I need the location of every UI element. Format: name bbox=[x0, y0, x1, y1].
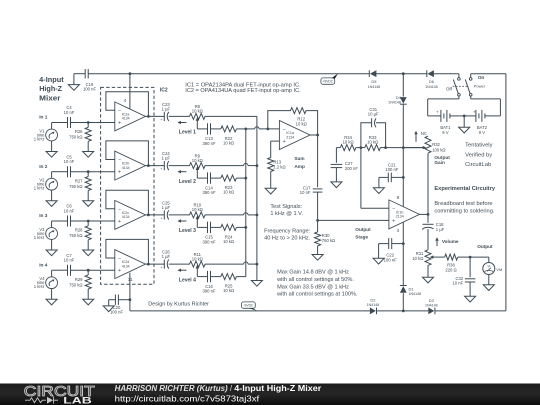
wire IC1b pin 8 bbox=[397, 105, 404, 207]
svg-text:+: + bbox=[118, 268, 121, 274]
ground for R28 bbox=[83, 250, 94, 256]
svg-text:9 V: 9 V bbox=[442, 130, 448, 135]
wire switch poleA to BAT1 bbox=[428, 96, 459, 116]
svg-text:Gain: Gain bbox=[434, 160, 445, 165]
diode D3 bbox=[425, 298, 438, 314]
resistor R22 bbox=[221, 126, 237, 146]
tentatively verified note bbox=[465, 143, 492, 168]
svg-text:10 nF: 10 nF bbox=[452, 281, 463, 286]
wire wiper branch 4 bbox=[197, 276, 246, 278]
svg-text:Breadboard test before: Breadboard test before bbox=[434, 201, 492, 207]
capacitor C27 bbox=[331, 148, 359, 182]
diode D4 bbox=[388, 74, 406, 105]
svg-text:Amp: Amp bbox=[294, 164, 305, 169]
svg-text:Volume: Volume bbox=[442, 239, 459, 244]
op-amp IC2b bbox=[115, 151, 146, 180]
node -9VDC tag bbox=[242, 302, 258, 311]
ground for R13 bbox=[265, 188, 276, 194]
capacitor C15 bbox=[202, 222, 215, 245]
capacitor C7 bbox=[64, 253, 75, 276]
svg-text:R26: R26 bbox=[75, 129, 83, 134]
svg-text:4: 4 bbox=[397, 228, 400, 233]
svg-text:In 4: In 4 bbox=[39, 262, 48, 268]
svg-text:10 kΩ: 10 kΩ bbox=[412, 256, 423, 261]
svg-text:Level 3: Level 3 bbox=[179, 228, 196, 234]
svg-text:Design by Kurtus Richter: Design by Kurtus Richter bbox=[148, 301, 209, 307]
svg-text:Stage: Stage bbox=[355, 235, 368, 240]
wiper direction arrow R10 bbox=[177, 219, 186, 222]
svg-text:Sum: Sum bbox=[294, 156, 304, 161]
svg-text:1 kHz @ 1 V.: 1 kHz @ 1 V. bbox=[270, 211, 303, 217]
svg-text:10 kΩ: 10 kΩ bbox=[343, 140, 354, 145]
wire R32 to output node bbox=[427, 153, 429, 214]
wire switch to right edge bbox=[471, 74, 506, 311]
node Level 3 label bbox=[179, 228, 196, 234]
potentiometer R9 bbox=[190, 153, 206, 178]
resistor R34 bbox=[336, 135, 361, 151]
svg-text:100 nF: 100 nF bbox=[385, 167, 398, 172]
potentiometer R32 bbox=[403, 136, 445, 153]
svg-text:10 nF: 10 nF bbox=[64, 110, 75, 115]
node Output label bbox=[477, 244, 493, 249]
svg-text:4134: 4134 bbox=[122, 264, 130, 268]
voltage source V2 bbox=[34, 172, 58, 191]
ground for R29 bbox=[83, 299, 94, 305]
svg-text:10 kΩ: 10 kΩ bbox=[223, 239, 234, 244]
node Sum Amp label bbox=[294, 156, 305, 169]
resistor R28 bbox=[69, 221, 91, 250]
svg-text:−: − bbox=[392, 207, 395, 213]
svg-text:10 nF: 10 nF bbox=[64, 208, 75, 213]
battery BAT2 bbox=[464, 109, 500, 134]
node Level 2 label bbox=[179, 179, 196, 185]
junction dot C22 tap bbox=[402, 242, 405, 245]
junction dot busC row4 bbox=[256, 263, 259, 266]
svg-text:+: + bbox=[392, 218, 395, 224]
diode D6 bbox=[425, 70, 438, 89]
wire IC1b pin 4 bbox=[397, 222, 404, 285]
wire wiper branch 3 bbox=[197, 226, 246, 228]
potentiometer R10 bbox=[190, 203, 206, 228]
node Level 1 label bbox=[179, 130, 196, 136]
wire top rail bbox=[88, 73, 459, 75]
potentiometer R8 bbox=[190, 104, 206, 129]
svg-text:Output: Output bbox=[477, 244, 493, 249]
wire input row 3 bbox=[52, 220, 115, 222]
svg-text:D1: D1 bbox=[409, 286, 415, 291]
design credit bbox=[148, 301, 209, 307]
junction dot rail pin4 bbox=[129, 72, 132, 75]
svg-text:R28: R28 bbox=[75, 228, 83, 233]
resistor R29 bbox=[69, 270, 91, 299]
capacitor C4 bbox=[64, 105, 75, 128]
svg-text:390 nF: 390 nF bbox=[202, 289, 215, 294]
wire feedback IC2c bbox=[106, 190, 148, 215]
svg-text:10 kΩ: 10 kΩ bbox=[192, 207, 203, 212]
wire pot R8 to bus bbox=[205, 115, 257, 117]
ground for VM bbox=[483, 275, 494, 291]
junction dot input 4 bbox=[87, 269, 90, 272]
svg-text:−: − bbox=[118, 207, 121, 213]
svg-text:Max Gain 14.8 dBV @ 1 kHz: Max Gain 14.8 dBV @ 1 kHz bbox=[277, 270, 349, 276]
svg-text:10 nF: 10 nF bbox=[64, 258, 75, 263]
footer bar bbox=[0, 384, 540, 405]
ground for C20 bbox=[103, 300, 114, 312]
junction dot output IC2d bbox=[147, 263, 150, 266]
resistor R26 bbox=[69, 123, 91, 152]
svg-text:+: + bbox=[283, 139, 286, 145]
svg-text:4134: 4134 bbox=[122, 166, 130, 170]
junction dot input 3 bbox=[87, 220, 90, 223]
battery BAT1 bbox=[436, 109, 464, 134]
op-amp IC2c bbox=[115, 200, 146, 229]
ground for V2 bbox=[46, 190, 57, 207]
svg-text:−: − bbox=[118, 158, 121, 164]
svg-text:Experimental Circuitry: Experimental Circuitry bbox=[434, 186, 496, 192]
capacitor C21 bbox=[379, 162, 403, 182]
wire pot R11 to bus bbox=[205, 262, 257, 264]
svg-text:200 nF: 200 nF bbox=[345, 166, 358, 171]
junction dot output IC2a bbox=[147, 115, 150, 118]
ground for V3 bbox=[46, 239, 57, 256]
svg-text:Frequency Range:: Frequency Range: bbox=[264, 229, 310, 235]
experimental circuitry note bbox=[434, 186, 496, 215]
svg-text:+9VDC: +9VDC bbox=[322, 80, 333, 84]
capacitor C6 bbox=[64, 204, 75, 227]
junction dot input 2 bbox=[87, 170, 90, 173]
svg-text:committing to soldering.: committing to soldering. bbox=[434, 209, 494, 215]
svg-text:1 µF: 1 µF bbox=[162, 106, 171, 111]
R31 volume arrow bbox=[435, 237, 438, 246]
svg-text:390 nF: 390 nF bbox=[202, 141, 215, 146]
ground for C22 bbox=[373, 244, 384, 264]
svg-text:1 kHz: 1 kHz bbox=[34, 186, 45, 191]
svg-text:R27: R27 bbox=[75, 178, 83, 183]
junction dot output IC2c bbox=[147, 214, 150, 217]
resistor R13 bbox=[268, 141, 286, 188]
svg-text:In 1: In 1 bbox=[39, 115, 48, 121]
svg-text:750 kΩ: 750 kΩ bbox=[69, 135, 82, 140]
svg-text:1N4148: 1N4148 bbox=[388, 101, 401, 105]
svg-text:100 nF: 100 nF bbox=[83, 86, 96, 91]
svg-text:4134: 4134 bbox=[122, 215, 130, 219]
op-amp IC2d bbox=[115, 250, 146, 279]
capacitor C18 bbox=[422, 214, 445, 249]
svg-text:CircuitLab: CircuitLab bbox=[465, 162, 491, 168]
wire wiper branch 2 bbox=[197, 177, 246, 179]
capacitor C5 bbox=[64, 154, 75, 177]
wire IC1b minus to divider bbox=[361, 148, 389, 209]
svg-text:Off: Off bbox=[446, 87, 453, 92]
capacitor C22 bbox=[379, 238, 404, 263]
wire BAT2 to switch poleB bbox=[471, 96, 501, 116]
diode D2 bbox=[367, 297, 380, 314]
capacitor C20 bbox=[109, 295, 130, 315]
svg-text:D6: D6 bbox=[429, 79, 435, 84]
svg-text:100 nF: 100 nF bbox=[384, 258, 397, 263]
svg-text:2134: 2134 bbox=[286, 135, 294, 139]
capacitor C26 bbox=[160, 250, 170, 270]
switch coupling dashes bbox=[453, 85, 469, 87]
node Level 4 label bbox=[179, 277, 196, 283]
capacitor C25 bbox=[160, 200, 170, 220]
svg-text:D4: D4 bbox=[396, 95, 402, 100]
resistor R33 bbox=[361, 135, 386, 151]
wire input row 1 bbox=[52, 122, 115, 124]
wire sum node to IC1a bbox=[246, 127, 280, 129]
svg-text:1 kHz: 1 kHz bbox=[34, 235, 45, 240]
svg-text:1 kHz: 1 kHz bbox=[34, 284, 45, 289]
resistor R27 bbox=[69, 172, 91, 201]
svg-text:1N4148: 1N4148 bbox=[425, 304, 438, 308]
svg-text:-9VDC: -9VDC bbox=[243, 304, 254, 308]
wire feedback IC2b bbox=[106, 141, 148, 166]
diode D5 bbox=[368, 70, 381, 89]
svg-text:4-Input: 4-Input bbox=[39, 75, 64, 84]
svg-text:NC: NC bbox=[421, 131, 427, 136]
node Output Stage label bbox=[355, 227, 371, 239]
svg-text:40 Hz to > 20 kHz.: 40 Hz to > 20 kHz. bbox=[264, 236, 311, 242]
svg-text:Max Gain 33.5 dBV @ 1 kHz: Max Gain 33.5 dBV @ 1 kHz bbox=[277, 285, 349, 291]
svg-text:1 µF: 1 µF bbox=[436, 227, 445, 232]
node Output Gain label bbox=[434, 155, 450, 165]
junction dot divider mid bbox=[360, 146, 363, 149]
CircuitLab logo bbox=[24, 383, 95, 405]
IC note text bbox=[185, 83, 300, 95]
svg-text:100 kΩ: 100 kΩ bbox=[432, 147, 445, 152]
svg-text:In 2: In 2 bbox=[39, 164, 48, 170]
footer url text bbox=[115, 394, 260, 404]
junction dot busC row2 bbox=[256, 164, 259, 167]
wire output IC2b bbox=[145, 165, 189, 167]
svg-text:1 µF: 1 µF bbox=[162, 156, 171, 161]
svg-text:D3: D3 bbox=[429, 298, 435, 303]
node In 2 label bbox=[39, 164, 48, 170]
capacitor C17 bbox=[300, 186, 323, 221]
wire IC1b output bbox=[419, 213, 428, 215]
wiper direction arrow R8 bbox=[177, 121, 186, 124]
wire bus pot ground side bbox=[256, 116, 258, 280]
junction dot pin8 rail bbox=[402, 146, 405, 149]
wiper direction arrow R9 bbox=[177, 170, 186, 173]
ground for C32 bbox=[465, 296, 476, 302]
svg-text:10 kΩ: 10 kΩ bbox=[192, 256, 203, 261]
svg-text:10 kΩ: 10 kΩ bbox=[223, 190, 234, 195]
svg-text:10 kΩ: 10 kΩ bbox=[223, 141, 234, 146]
ground for R27 bbox=[83, 201, 94, 207]
junction dot input 1 bbox=[87, 121, 90, 124]
voltmeter VM bbox=[483, 263, 503, 275]
node +9VDC tag bbox=[321, 74, 338, 85]
wire to IC1b plus bbox=[318, 219, 389, 221]
diode D1 bbox=[400, 286, 421, 311]
svg-text:9 V: 9 V bbox=[479, 130, 485, 135]
svg-text:Mixer: Mixer bbox=[39, 93, 60, 102]
svg-text:IC2: IC2 bbox=[160, 88, 168, 94]
voltage source V1 bbox=[34, 123, 58, 142]
wire wiper branch 1 bbox=[197, 128, 246, 130]
wire bottom rail bbox=[130, 310, 506, 312]
svg-text:VM: VM bbox=[496, 267, 502, 272]
wire output IC2d bbox=[145, 263, 189, 265]
junction dot C17 R30 bbox=[316, 219, 319, 222]
switch SW1 pole B bbox=[465, 75, 485, 96]
ground for level pots bbox=[251, 281, 262, 287]
voltage source V3 bbox=[34, 221, 58, 240]
ground for V1 bbox=[46, 141, 57, 158]
svg-text:On: On bbox=[478, 75, 485, 81]
svg-text:with all control settings at 5: with all control settings at 50%. bbox=[276, 277, 354, 283]
svg-text:8: 8 bbox=[397, 195, 400, 200]
svg-text:In 3: In 3 bbox=[39, 213, 48, 219]
svg-text:+: + bbox=[436, 109, 439, 114]
wire divider to R32 bbox=[386, 147, 424, 149]
op-amp IC1b bbox=[389, 200, 420, 229]
capacitor C14 bbox=[202, 172, 215, 195]
node In 1 label bbox=[39, 115, 48, 121]
svg-text:10 nF: 10 nF bbox=[64, 159, 75, 164]
junction dot R33 right bbox=[384, 146, 387, 149]
svg-text:D5: D5 bbox=[371, 79, 377, 84]
wire IC2 pin 4 bbox=[124, 74, 130, 109]
ground for R26 bbox=[83, 152, 94, 158]
voltage source V4 bbox=[34, 270, 58, 289]
svg-text:10 kΩ: 10 kΩ bbox=[296, 122, 307, 127]
svg-text:Test Signals:: Test Signals: bbox=[270, 204, 302, 210]
wire output IC2c bbox=[145, 214, 189, 216]
capacitor C23 bbox=[160, 102, 170, 122]
svg-text:750 kΩ: 750 kΩ bbox=[69, 233, 82, 238]
svg-text:10 µF: 10 µF bbox=[368, 112, 379, 117]
svg-text:http://circuitlab.com/c7v5873t: http://circuitlab.com/c7v5873taj3xf bbox=[115, 394, 260, 404]
junction dot bus branch 3 bbox=[244, 226, 247, 229]
resistor R12 feedback bbox=[268, 108, 318, 135]
R32 NC terminal arrow bbox=[414, 131, 427, 142]
svg-text:Output: Output bbox=[355, 227, 371, 232]
svg-text:1N4148: 1N4148 bbox=[367, 303, 380, 307]
junction dot IC1a minus bbox=[266, 127, 269, 130]
op-amp IC2a bbox=[115, 102, 146, 131]
svg-text:+: + bbox=[118, 120, 121, 126]
junction dot bus branch 1 bbox=[244, 127, 247, 130]
potentiometer R11 bbox=[190, 252, 206, 277]
svg-text:V: V bbox=[487, 263, 490, 268]
svg-text:10 kΩ: 10 kΩ bbox=[223, 288, 234, 293]
svg-text:750 kΩ: 750 kΩ bbox=[69, 184, 82, 189]
svg-text:1N4148: 1N4148 bbox=[368, 85, 381, 89]
ground battery midpoint bbox=[459, 116, 470, 133]
ground for R30 bbox=[312, 255, 323, 261]
svg-text:220 Ω: 220 Ω bbox=[445, 268, 456, 273]
capacitor C13 bbox=[202, 123, 215, 146]
wire input row 4 bbox=[52, 269, 115, 271]
IC2 package dashed box bbox=[101, 87, 168, 284]
op-amp IC1a bbox=[279, 121, 310, 150]
ground for V4 bbox=[46, 288, 57, 305]
ground for C19 bbox=[68, 85, 79, 91]
svg-text:−: − bbox=[283, 127, 286, 133]
svg-text:1N4148: 1N4148 bbox=[409, 292, 422, 296]
wire pot R9 to bus bbox=[205, 163, 257, 165]
wire feedback IC2d bbox=[106, 239, 148, 264]
frequency range note bbox=[264, 229, 311, 242]
capacitor C32 bbox=[452, 257, 475, 296]
svg-text:750 kΩ: 750 kΩ bbox=[69, 282, 82, 287]
junction dot D1 rail bbox=[402, 310, 405, 313]
svg-text:LAB: LAB bbox=[63, 394, 92, 405]
svg-text:with all control settings at 1: with all control settings at 100%. bbox=[276, 291, 358, 297]
svg-text:11: 11 bbox=[128, 277, 133, 282]
svg-text:High-Z: High-Z bbox=[39, 84, 62, 93]
test signals note bbox=[270, 204, 303, 217]
wire pot R10 to bus bbox=[205, 213, 257, 215]
junction dot IC1b output bbox=[427, 213, 430, 216]
svg-text:10 nF: 10 nF bbox=[300, 190, 311, 195]
potentiometer R31 bbox=[412, 250, 434, 266]
svg-text:−: − bbox=[118, 109, 121, 115]
wiper direction arrow R11 bbox=[177, 269, 186, 272]
svg-text:R29: R29 bbox=[75, 277, 83, 282]
junction dot busC row3 bbox=[256, 214, 259, 217]
svg-text:1 kHz: 1 kHz bbox=[34, 136, 45, 141]
wire IC2 pin 11 bbox=[128, 273, 133, 311]
svg-text:D2: D2 bbox=[370, 297, 376, 302]
svg-text:Level 1: Level 1 bbox=[179, 130, 196, 136]
ground for C21 bbox=[373, 177, 384, 193]
junction dot output IC2b bbox=[147, 164, 150, 167]
title text bbox=[39, 75, 64, 103]
svg-text:2134: 2134 bbox=[396, 215, 404, 219]
svg-text:Verified by: Verified by bbox=[465, 152, 492, 158]
resistor R38 bbox=[433, 254, 470, 273]
junction dot output net bbox=[469, 256, 472, 259]
wire IC1a output bbox=[309, 135, 317, 187]
wire input row 2 bbox=[52, 171, 115, 173]
capacitor C16 bbox=[202, 271, 215, 294]
svg-text:1 µF: 1 µF bbox=[162, 205, 171, 210]
wire bus wiper sum bbox=[245, 129, 247, 277]
svg-text:760 kΩ: 760 kΩ bbox=[322, 238, 335, 243]
svg-text:4134: 4134 bbox=[122, 117, 130, 121]
svg-text:Level 4: Level 4 bbox=[179, 277, 196, 283]
svg-text:10 kΩ: 10 kΩ bbox=[192, 109, 203, 114]
svg-text:390 nF: 390 nF bbox=[202, 190, 215, 195]
footer title text bbox=[115, 384, 322, 393]
svg-text:Tentatively: Tentatively bbox=[465, 143, 492, 149]
junction dot battery midpoint bbox=[463, 115, 466, 118]
svg-text:100 nF: 100 nF bbox=[110, 310, 123, 315]
junction dot pin11 C20 bbox=[129, 298, 132, 301]
capacitor C24 bbox=[160, 151, 170, 171]
svg-text:IC2 = OPA4134UA quad FET-input: IC2 = OPA4134UA quad FET-input op-amp IC… bbox=[185, 88, 300, 94]
wire feedback IC2a bbox=[106, 92, 148, 117]
max gain note bbox=[276, 270, 358, 298]
junction dot rail-D4 bbox=[402, 72, 405, 75]
junction dot IC1a output bbox=[316, 134, 319, 137]
wire to voltmeter bbox=[470, 257, 489, 262]
resistor R24 bbox=[221, 224, 237, 244]
node In 3 label bbox=[39, 213, 48, 219]
switch SW1 pole A bbox=[446, 74, 460, 96]
junction dot C21 tap bbox=[402, 176, 405, 179]
svg-text:10 kΩ: 10 kΩ bbox=[192, 158, 203, 163]
svg-text:HARRISON RICHTER (Kurtus) / 4-: HARRISON RICHTER (Kurtus) / 4-Input High… bbox=[115, 384, 322, 393]
node Volume label bbox=[442, 239, 459, 244]
ground for C27 bbox=[331, 182, 342, 188]
junction dot bus branch 2 bbox=[244, 177, 247, 180]
svg-text:390 nF: 390 nF bbox=[202, 239, 215, 244]
capacitor C19 bbox=[74, 69, 97, 91]
